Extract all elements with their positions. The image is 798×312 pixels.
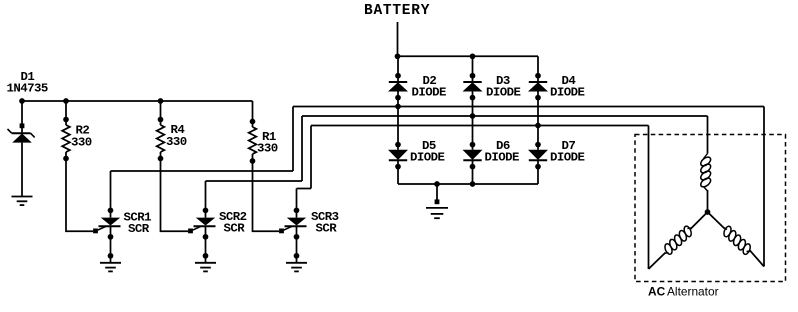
resistor R2 [62, 125, 70, 152]
node D6 anode terminal [470, 142, 476, 148]
node SCR3 cathode terminal [294, 234, 300, 240]
node phase junction at D4/D7 [535, 123, 541, 129]
svg-text:SCR: SCR [316, 222, 338, 236]
resistor R4 [157, 125, 165, 152]
wire phase A left drop [292, 107, 294, 172]
wire R4 top stem [160, 101, 162, 125]
pin SCR3 gate terminal [279, 229, 284, 234]
svg-text:DIODE: DIODE [485, 150, 520, 164]
wire D4-D7 column [537, 92, 539, 150]
diode D4 [529, 81, 547, 83]
node SCR2 ground junction [203, 253, 209, 259]
wire SCR1 cathode stem [110, 226, 112, 262]
node rail-D1 junction [19, 98, 25, 104]
node R1 bottom terminal [250, 158, 256, 164]
node R4 top terminal [158, 117, 164, 123]
node D6 cathode terminal [470, 164, 476, 170]
diode D5 [388, 150, 408, 160]
wire phase B to SCR2 [206, 180, 303, 182]
wire top-left rail [22, 100, 253, 102]
wire SCR2 cathode stem [205, 226, 207, 262]
svg-text:Alternator: Alternator [667, 284, 719, 298]
ground bridge [426, 207, 448, 209]
node SCR2 cathode terminal [203, 234, 209, 240]
wire battery positive rail [398, 55, 539, 57]
pin ground terminal [435, 199, 440, 204]
wire phase A right drop to coil [763, 107, 765, 267]
node SCR1 cathode terminal [108, 234, 114, 240]
svg-text:330: 330 [71, 135, 92, 149]
svg-text:AC: AC [648, 284, 666, 298]
node rail-R4 junction [158, 98, 164, 104]
node phase junction at D3/D6 [470, 113, 476, 119]
node R2 bottom terminal [63, 156, 69, 162]
node rail-D3 junction [470, 53, 476, 59]
wire ground tap stem [436, 184, 438, 202]
node wye center [705, 209, 711, 215]
wire phase C jog to SCR3 [297, 188, 312, 190]
zener D1 [12, 132, 31, 134]
node R4 bottom terminal [158, 156, 164, 162]
wire SCR1 anode stem [110, 171, 112, 218]
wire D6 bottom stem [472, 160, 474, 184]
wire phase B left drop [301, 116, 303, 181]
inductor right phase winding [708, 212, 725, 229]
pin D1 cathode terminal [20, 123, 25, 128]
wire phase C right drop to coil [648, 126, 650, 270]
wire phase B horizontal bus [302, 115, 708, 117]
diode D2 [389, 81, 407, 83]
wire D1 cathode stem [21, 101, 23, 133]
wire R2 top stem [65, 101, 67, 125]
svg-text:DIODE: DIODE [550, 85, 585, 99]
inductor middle phase winding [704, 154, 708, 159]
thyristor SCR1 [101, 218, 120, 226]
node D3 cathode terminal [470, 73, 476, 79]
wire bridge negative rail [398, 183, 538, 185]
node SCR3 ground junction [294, 253, 300, 259]
diode D6 [463, 150, 483, 160]
wire SCR2 anode stem [205, 181, 207, 218]
wire D2-D5 column [397, 92, 399, 150]
node SCR2 anode terminal [203, 208, 209, 214]
node rail-D6 junction [470, 181, 476, 187]
svg-text:DIODE: DIODE [410, 150, 445, 164]
wire phase C horizontal bus [311, 125, 649, 127]
ground D1 [12, 196, 33, 198]
wire battery lead [397, 22, 399, 56]
pin SCR1 gate terminal [93, 229, 98, 234]
wire D7 bottom stem [537, 160, 539, 184]
pin SCR2 gate terminal [188, 229, 193, 234]
svg-text:DIODE: DIODE [412, 85, 447, 99]
node phase junction at D2/D5 [395, 104, 401, 110]
node SCR1 anode terminal [108, 208, 114, 214]
node D5 cathode terminal [395, 164, 401, 170]
node D4 cathode terminal [535, 73, 541, 79]
alternator enclosure (dashed) [635, 135, 786, 282]
wire R2 to SCR1 gate [66, 152, 93, 231]
svg-text:DIODE: DIODE [550, 150, 585, 164]
node D2 cathode terminal [395, 73, 401, 79]
diode D3 [463, 81, 481, 83]
wire R1 to SCR3 gate [253, 154, 280, 231]
wire D4 top stem [537, 56, 539, 82]
node rail-R2 junction [63, 98, 69, 104]
node R2 top terminal [63, 117, 69, 123]
node SCR3 anode terminal [294, 208, 300, 214]
resistor R1 [249, 127, 257, 154]
node D3 anode terminal [470, 95, 476, 101]
svg-text:330: 330 [257, 141, 278, 155]
ground SCR1 [100, 262, 121, 264]
wire D3-D6 column [472, 92, 474, 150]
svg-text:BATTERY: BATTERY [364, 3, 430, 19]
wire D3 top stem [472, 56, 474, 82]
node D7 anode terminal [535, 142, 541, 148]
node SCR1 ground junction [108, 253, 114, 259]
node D2 anode terminal [395, 95, 401, 101]
ground SCR3 [286, 262, 307, 264]
svg-text:1N4735: 1N4735 [7, 81, 48, 95]
wire phase B right drop to coil [707, 116, 709, 154]
svg-text:330: 330 [166, 135, 187, 149]
wire D5 bottom stem [397, 160, 399, 184]
wire R4 to SCR2 gate [161, 152, 189, 231]
ground SCR2 [195, 262, 216, 264]
wire phase A horizontal bus [293, 106, 764, 108]
node rail-D2 junction [395, 53, 401, 59]
wire SCR3 cathode stem [296, 226, 298, 262]
wire SCR3 anode stem [296, 189, 298, 218]
node D7 cathode terminal [535, 164, 541, 170]
node D4 anode terminal [535, 95, 541, 101]
diode D7 [528, 150, 548, 160]
inductor left phase winding [649, 253, 666, 270]
node rail ground tap [434, 181, 440, 187]
svg-text:SCR: SCR [224, 222, 246, 236]
thyristor SCR3 [287, 218, 306, 226]
svg-text:DIODE: DIODE [486, 85, 521, 99]
wire D1 anode stem [21, 143, 23, 197]
wire phase A to SCR1 [111, 170, 294, 172]
thyristor SCR2 [196, 218, 215, 226]
node R1 top terminal [250, 119, 256, 125]
node D5 anode terminal [395, 142, 401, 148]
svg-text:SCR: SCR [128, 222, 150, 236]
wire phase C left drop [310, 126, 312, 189]
wire R1 top stem [252, 101, 254, 127]
wire D2 top stem [397, 56, 399, 82]
